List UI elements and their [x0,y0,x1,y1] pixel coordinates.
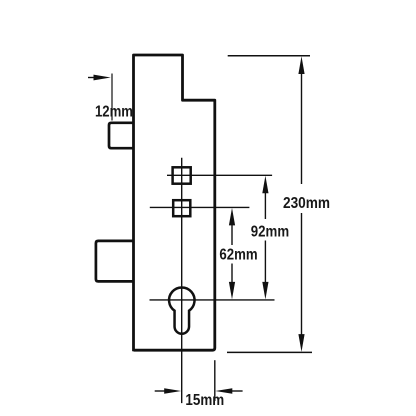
svg-text:230mm: 230mm [283,195,330,212]
62mm dimension: bottom arrowhead [229,282,235,300]
62mm dimension: line lower segment [231,264,233,287]
62mm dimension: top arrowhead [229,208,235,226]
12mm dimension: extension line [111,74,113,121]
12mm label [95,104,133,121]
62mm dimension: line upper segment [231,221,233,245]
svg-text:62mm: 62mm [219,246,257,263]
15mm dimension: right arrowhead [215,388,232,394]
deadbolt [96,241,135,282]
92mm dimension: line upper segment [264,189,266,219]
latch bolt [109,123,135,148]
lower spindle hole (square) [173,200,190,216]
svg-text:15mm: 15mm [185,392,224,409]
svg-text:12mm: 12mm [95,104,133,121]
230mm dimension: top extension line [228,55,310,57]
230mm dimension: line lower segment [301,213,303,340]
92mm dimension: top arrowhead [262,176,268,194]
62mm label [219,246,257,263]
15mm dimension: right extension line [214,360,216,401]
upper spindle hole (square) [173,167,191,183]
230mm dimension: bottom extension line [227,351,312,353]
15mm dimension: left arrowhead [164,388,181,394]
15mm dimension: left arrow shaft [155,390,168,392]
92mm dimension: bottom arrowhead [262,282,268,300]
230mm label [283,195,330,212]
12mm dimension: arrow shaft [88,77,98,79]
svg-text:92mm: 92mm [251,223,289,240]
92mm dimension: line lower segment [264,241,266,287]
230mm dimension: top arrowhead [298,56,304,74]
15mm dimension: right arrow shaft [229,390,243,392]
92mm label [251,223,289,240]
vertical centreline through spindle holes and cylinder [181,158,183,403]
upper spindle hole crosshair horizontal [167,174,272,176]
lower spindle hole crosshair horizontal [150,206,250,208]
230mm dimension: line upper segment [301,70,303,184]
lock body outline [134,55,215,351]
cylinder crosshair horizontal [150,299,275,301]
15mm label [185,392,224,409]
12mm dimension: arrowhead [94,75,111,81]
euro cylinder cut-out [169,287,195,333]
230mm dimension: bottom arrowhead [298,334,304,352]
